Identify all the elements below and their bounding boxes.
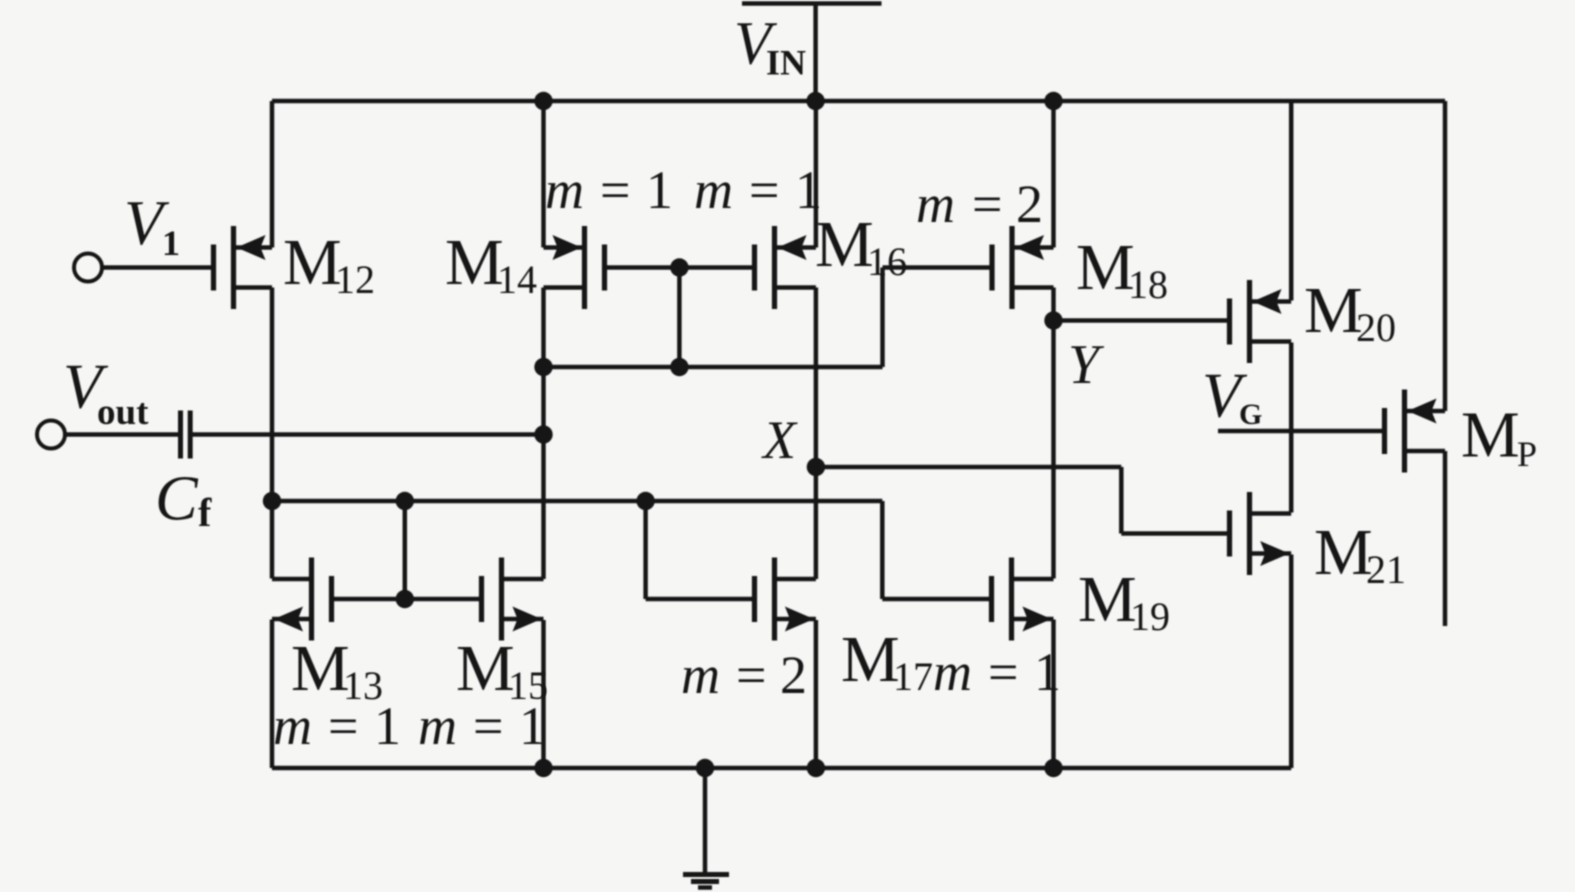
svg-text:19: 19	[1130, 594, 1170, 639]
svg-text:2: 2	[1016, 174, 1043, 234]
svg-text:17: 17	[893, 654, 933, 699]
svg-text:M: M	[291, 632, 350, 705]
svg-text:out: out	[97, 392, 149, 433]
svg-text:C: C	[155, 463, 199, 534]
svg-text:M: M	[1076, 231, 1135, 304]
svg-text:20: 20	[1356, 305, 1396, 350]
svg-text:=: =	[600, 160, 630, 220]
svg-text:m: m	[916, 174, 955, 234]
svg-text:m: m	[273, 696, 312, 756]
svg-text:=: =	[749, 160, 779, 220]
svg-text:1: 1	[646, 160, 673, 220]
svg-text:21: 21	[1366, 547, 1406, 592]
svg-text:M: M	[445, 226, 504, 299]
svg-text:=: =	[736, 645, 766, 705]
svg-text:1: 1	[519, 696, 546, 756]
svg-text:1: 1	[795, 160, 822, 220]
svg-text:m: m	[933, 642, 972, 702]
svg-text:m: m	[694, 160, 733, 220]
svg-text:M: M	[1314, 516, 1373, 589]
svg-text:IN: IN	[766, 43, 806, 83]
svg-text:M: M	[815, 208, 874, 281]
svg-text:16: 16	[867, 239, 907, 284]
svg-text:P: P	[1517, 434, 1537, 474]
svg-text:M: M	[283, 226, 342, 299]
svg-text:12: 12	[335, 257, 375, 302]
svg-text:M: M	[1461, 399, 1520, 472]
svg-text:14: 14	[497, 257, 537, 302]
svg-text:M: M	[456, 632, 515, 705]
svg-text:X: X	[761, 410, 798, 470]
svg-text:=: =	[988, 642, 1018, 702]
svg-text:1: 1	[162, 223, 180, 263]
svg-text:f: f	[198, 490, 212, 535]
svg-text:=: =	[473, 696, 503, 756]
svg-text:m: m	[545, 160, 584, 220]
svg-text:18: 18	[1128, 262, 1168, 307]
svg-text:1: 1	[1034, 642, 1061, 702]
svg-text:2: 2	[780, 645, 807, 705]
svg-text:1: 1	[374, 696, 401, 756]
svg-text:M: M	[1304, 274, 1363, 347]
svg-text:m: m	[681, 645, 720, 705]
svg-text:=: =	[972, 174, 1002, 234]
svg-text:=: =	[328, 696, 358, 756]
svg-text:m: m	[418, 696, 457, 756]
svg-text:G: G	[1239, 398, 1262, 431]
svg-text:M: M	[841, 623, 900, 696]
svg-text:M: M	[1078, 563, 1137, 636]
